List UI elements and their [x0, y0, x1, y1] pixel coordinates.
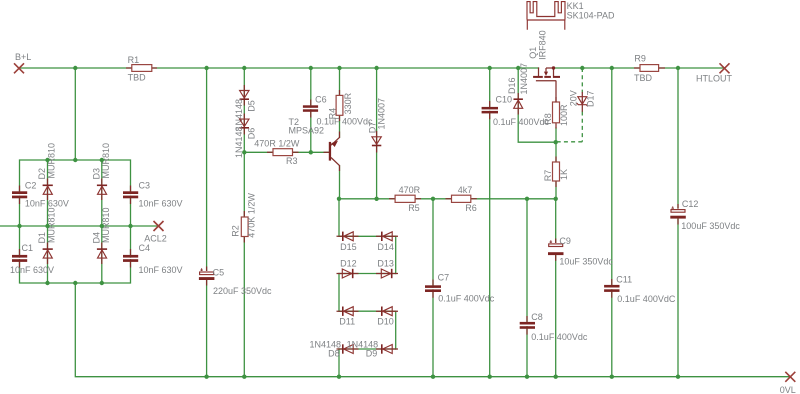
- wire ladder row 4: [339, 348, 396, 350]
- junction bottom rail ladder: [337, 375, 341, 379]
- wire C7 column: [432, 199, 434, 377]
- svg-text:IRF840: IRF840: [537, 30, 547, 60]
- wire ladder row 2: [339, 273, 396, 275]
- junction top rail D5: [242, 66, 246, 70]
- diode D5 1N4148: [234, 85, 257, 131]
- terminal 0VL: [780, 372, 796, 394]
- svg-text:470R 1/2W: 470R 1/2W: [254, 139, 300, 149]
- wire diode column D2-D1: [47, 160, 49, 283]
- wire top rail right (Q1 source to HTLOUT): [554, 67, 725, 69]
- junction mid wire D4: [100, 224, 104, 228]
- svg-text:R5: R5: [408, 203, 420, 213]
- wire ladder left column segment 2: [338, 274, 340, 312]
- resistor R5: [389, 185, 421, 213]
- wire ladder left column: [338, 199, 340, 237]
- svg-text:C7: C7: [438, 273, 450, 283]
- wire ladder left column segment 3: [338, 349, 340, 377]
- wire C6 column: [310, 68, 312, 152]
- wire diode column D3-D4: [101, 160, 103, 283]
- terminal HTLOUT: [696, 63, 733, 83]
- diode D4 MUR810: [91, 207, 111, 264]
- svg-text:0.1uF 400VdC: 0.1uF 400VdC: [617, 294, 676, 304]
- diode D3 MUR810: [91, 143, 111, 200]
- svg-text:R7: R7: [543, 170, 553, 182]
- diode D17 zener 20V: [569, 90, 596, 112]
- capacitor C4: [123, 243, 183, 275]
- junction top rail C12: [676, 66, 680, 70]
- svg-text:D13: D13: [377, 259, 394, 269]
- svg-text:0.1uF 400Vdc: 0.1uF 400Vdc: [531, 332, 588, 342]
- svg-text:10uF 350Vdc: 10uF 350Vdc: [559, 256, 613, 266]
- junction bottom rail C11: [610, 375, 614, 379]
- resistor R7: [543, 157, 569, 188]
- diode D6 1N4148: [234, 114, 257, 159]
- capacitor C9 polarized: [548, 236, 613, 267]
- resistor R3: [254, 139, 300, 167]
- junction top rail bridge feed: [73, 66, 77, 70]
- svg-text:1N4007: 1N4007: [376, 98, 386, 130]
- wire C8 column: [526, 199, 528, 377]
- svg-text:B+L: B+L: [15, 52, 31, 62]
- transistor Q1 IRF840 mosfet: [528, 30, 560, 102]
- wire dashed zener branch vertical top: [581, 68, 583, 93]
- junction bridge bottom D1: [45, 281, 49, 285]
- resistor R9: [634, 53, 665, 83]
- svg-text:TBD: TBD: [634, 73, 653, 83]
- junction bottom rail C9: [554, 375, 558, 379]
- junction base net C6: [309, 150, 313, 154]
- wire C5 column: [206, 68, 208, 377]
- svg-text:D14: D14: [377, 242, 394, 252]
- junction mid rail D7: [374, 197, 378, 201]
- wire ladder row 3: [339, 310, 396, 312]
- transistor T2 MPSA92: [289, 117, 340, 171]
- junction top rail C11: [610, 66, 614, 70]
- svg-text:C5: C5: [213, 268, 225, 278]
- wire bridge top: [20, 160, 131, 226]
- svg-text:C10: C10: [496, 95, 513, 105]
- svg-text:4k7: 4k7: [458, 185, 473, 195]
- svg-text:R9: R9: [634, 53, 646, 63]
- junction mid rail C7: [431, 197, 435, 201]
- svg-text:D5: D5: [247, 100, 257, 112]
- junction bottom rail C7: [431, 375, 435, 379]
- svg-text:D12: D12: [340, 259, 357, 269]
- capacitor C11: [604, 275, 676, 305]
- svg-text:C12: C12: [682, 199, 699, 209]
- resistor R8: [543, 97, 569, 129]
- capacitor C8: [520, 312, 588, 342]
- svg-text:470K 1/2W: 470K 1/2W: [247, 193, 257, 238]
- svg-text:20V: 20V: [569, 90, 579, 106]
- junction bridge top: [73, 158, 77, 162]
- wire C11 column: [611, 68, 613, 377]
- junction top rail D7: [374, 66, 378, 70]
- junction bridge top D2: [45, 158, 49, 162]
- wire D7 column: [376, 68, 378, 199]
- wire C10 column: [489, 68, 491, 377]
- wire gate node R8 R7: [555, 128, 557, 162]
- svg-text:C4: C4: [139, 243, 151, 253]
- svg-text:1K: 1K: [559, 169, 569, 180]
- wire D5 D6 R2 column: [243, 68, 245, 377]
- svg-text:D3: D3: [91, 168, 101, 180]
- resistor R6: [446, 185, 477, 213]
- wire R7 bottom to mid rail: [555, 181, 557, 199]
- svg-text:C6: C6: [315, 94, 327, 104]
- capacitor C3: [123, 181, 183, 209]
- diode D15 1N4148: [337, 232, 359, 252]
- wire bridge feed drop: [74, 68, 76, 160]
- junction top rail D16: [516, 66, 520, 70]
- svg-text:D9: D9: [366, 349, 378, 359]
- diode D12 1N4148: [337, 259, 359, 279]
- junction top rail C5: [204, 66, 208, 70]
- capacitor C7: [425, 273, 495, 304]
- diode D10 1N4148: [376, 307, 398, 327]
- svg-text:MPSA92: MPSA92: [289, 126, 325, 136]
- svg-text:0VL: 0VL: [780, 385, 796, 394]
- wire ladder right column segment 1: [395, 236, 397, 273]
- wire mid-left ACL2 net: [0, 225, 159, 227]
- svg-text:10nF 630V: 10nF 630V: [10, 265, 54, 275]
- junction mid wire D1: [45, 224, 49, 228]
- wire R3 base net: [244, 151, 329, 153]
- svg-text:C2: C2: [25, 181, 37, 191]
- svg-text:220uF 350Vdc: 220uF 350Vdc: [213, 286, 272, 296]
- capacitor C10: [482, 95, 550, 128]
- wire T2 collector drop: [339, 166, 341, 199]
- capacitor C2: [12, 181, 69, 209]
- svg-text:R6: R6: [465, 203, 477, 213]
- svg-text:SK104-PAD: SK104-PAD: [567, 10, 615, 20]
- diode D1 MUR810: [37, 207, 57, 264]
- junction top rail C10: [488, 66, 492, 70]
- diode D13 1N4148: [376, 259, 398, 279]
- wire bridge bottom: [20, 226, 131, 283]
- capacitor C5 polarized: [199, 267, 272, 297]
- heatsink KK1 SK104-PAD: [527, 1, 615, 30]
- svg-text:330R: 330R: [343, 92, 353, 114]
- svg-text:100R: 100R: [559, 104, 569, 126]
- svg-text:C8: C8: [531, 312, 543, 322]
- wire dashed zener branch vertical bottom: [581, 112, 583, 142]
- diode D16 1N4007: [507, 63, 529, 115]
- wire ladder right column segment 2: [395, 311, 397, 349]
- svg-text:D15: D15: [340, 242, 357, 252]
- svg-text:C11: C11: [616, 275, 632, 285]
- junction bottom rail C5: [204, 375, 208, 379]
- svg-text:C1: C1: [22, 243, 34, 253]
- diode D14 1N4148: [376, 232, 398, 252]
- svg-text:TBD: TBD: [128, 73, 147, 83]
- svg-text:R1: R1: [128, 55, 140, 65]
- junction top rail R4: [337, 66, 341, 70]
- svg-text:D2: D2: [37, 168, 47, 180]
- svg-text:D6: D6: [247, 128, 257, 140]
- capacitor C12 polarized: [670, 199, 740, 231]
- svg-text:0.1uF 400Vdc: 0.1uF 400Vdc: [317, 117, 374, 127]
- junction bottom rail C8: [525, 375, 529, 379]
- junction top rail zener branch: [580, 66, 584, 70]
- terminal B+L: [14, 52, 31, 73]
- junction top rail C6: [309, 66, 313, 70]
- svg-text:0.1uF 400Vdc: 0.1uF 400Vdc: [438, 293, 495, 303]
- junction gate node R8 R7 D16: [554, 140, 558, 144]
- svg-text:D17: D17: [586, 90, 596, 107]
- svg-text:HTLOUT: HTLOUT: [696, 73, 733, 83]
- svg-text:D11: D11: [339, 316, 355, 326]
- wire C12 column: [677, 68, 679, 377]
- svg-text:ACL2: ACL2: [144, 233, 167, 243]
- junction bridge bottom feed: [73, 281, 77, 285]
- svg-text:1N4007: 1N4007: [519, 63, 529, 95]
- diode D7 1N4007: [368, 98, 387, 153]
- junction bridge bottom D4: [100, 281, 104, 285]
- diode D11 1N4148: [337, 307, 359, 327]
- diode D2 MUR810: [37, 143, 57, 200]
- junction mid wire C2: [17, 224, 21, 228]
- svg-text:1N4148: 1N4148: [234, 99, 244, 131]
- junction bottom rail R2: [242, 375, 246, 379]
- capacitor C6: [303, 94, 373, 126]
- svg-text:470R: 470R: [399, 185, 421, 195]
- svg-text:D4: D4: [91, 232, 101, 244]
- svg-text:100uF 350Vdc: 100uF 350Vdc: [681, 221, 740, 231]
- diode D8 1N4148: [310, 339, 359, 358]
- diode D9 1N4148: [347, 339, 398, 358]
- junction bridge top D3: [100, 158, 104, 162]
- svg-text:D16: D16: [507, 77, 517, 94]
- svg-text:D8: D8: [328, 349, 340, 359]
- svg-text:C9: C9: [559, 236, 571, 246]
- junction bottom rail C12: [676, 375, 680, 379]
- wire dashed zener branch horizontal: [558, 141, 583, 143]
- wire top rail left (B+L to Q1 drain): [19, 67, 539, 69]
- svg-text:D10: D10: [377, 316, 394, 326]
- junction base net D6 R2: [242, 150, 246, 154]
- resistor R4: [328, 90, 353, 121]
- resistor R1: [126, 55, 157, 83]
- junction mid wire C4: [128, 224, 132, 228]
- wire R4 T2 column: [339, 68, 341, 137]
- junction mid rail T2 ladder: [337, 197, 341, 201]
- wire C9 column: [555, 199, 557, 377]
- wire ladder row 1: [339, 235, 396, 237]
- svg-text:D1: D1: [37, 232, 47, 244]
- junction bottom rail C10: [488, 375, 492, 379]
- resistor R2: [231, 193, 257, 243]
- junction mid rail C8: [525, 197, 529, 201]
- capacitor C1: [10, 243, 54, 275]
- wire mid rail R5 R6: [339, 198, 556, 200]
- svg-text:R2: R2: [231, 225, 241, 237]
- svg-text:R3: R3: [286, 156, 298, 166]
- terminal ACL2: [144, 221, 167, 243]
- svg-text:C3: C3: [139, 181, 151, 191]
- wire D16 column: [518, 68, 556, 142]
- svg-text:10nF 630V: 10nF 630V: [139, 198, 183, 208]
- junction mid rail R7 C9: [554, 197, 558, 201]
- svg-text:0.1uF 400Vdc: 0.1uF 400Vdc: [493, 117, 550, 127]
- wire bottom rail 0VL: [75, 283, 790, 377]
- svg-text:10nF 630V: 10nF 630V: [139, 265, 183, 275]
